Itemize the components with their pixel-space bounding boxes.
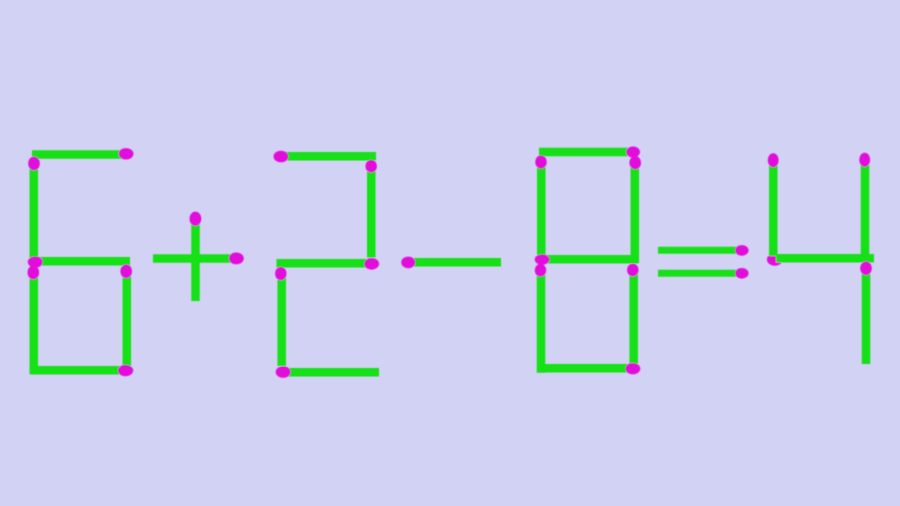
- digit 8 lower-left vertical matchstick: [537, 271, 546, 373]
- match head: digit 4 left stick, top end: [768, 153, 779, 167]
- match head: digit 6 top stick, right end: [119, 148, 134, 159]
- plus sign vertical matchstick: [191, 220, 200, 301]
- digit 6 bottom horizontal matchstick: [30, 366, 125, 375]
- digit 2 upper-right vertical matchstick: [367, 167, 376, 258]
- match head: digit 4 lower-right stick, top end: [860, 261, 872, 275]
- match head: plus horizontal stick, right end: [229, 253, 244, 265]
- digit 4 middle horizontal matchstick: [776, 254, 874, 263]
- digit 4 lower-right vertical matchstick: [862, 270, 871, 365]
- match head: digit 8 lower-right stick, top end: [627, 264, 638, 277]
- match head: digit 2 upper-right stick, top end: [366, 160, 377, 173]
- match head: digit 8 top stick, right end: [626, 147, 640, 158]
- digit 8 top horizontal matchstick: [539, 148, 632, 157]
- match head: digit 8 upper-left stick, top end: [535, 155, 546, 168]
- match head: digit 8 upper-right stick, top end: [629, 156, 641, 169]
- digit 6 middle horizontal matchstick: [36, 257, 130, 266]
- match head: digit 8 middle stick, left end: [535, 254, 550, 265]
- match head: plus vertical stick, top end: [190, 212, 202, 226]
- digit 6 lower-left vertical matchstick: [30, 273, 39, 374]
- match head: digit 2 middle stick, right end: [364, 258, 379, 270]
- match head: minus stick, left end: [401, 257, 415, 269]
- minus sign horizontal matchstick: [409, 258, 501, 267]
- digit 8 upper-right vertical matchstick: [631, 164, 640, 263]
- digit 2 lower-left vertical matchstick: [277, 275, 286, 367]
- match head: digit 6 upper-left stick, top end: [28, 157, 40, 171]
- match head: digit 6 lower-right stick, top end: [120, 264, 132, 278]
- digit 6 lower-right vertical matchstick: [123, 272, 132, 366]
- digit 6 upper-left vertical matchstick: [30, 164, 39, 258]
- digit 2 middle horizontal matchstick: [277, 259, 372, 268]
- match head: digit 4 upper-right stick, top end: [859, 153, 870, 167]
- digit 4 left vertical matchstick: [769, 162, 778, 257]
- digit 4 upper-right vertical matchstick: [861, 161, 870, 256]
- match head: digit 2 lower-left stick, top end: [275, 267, 286, 281]
- match head: equals upper stick, right end: [735, 245, 749, 256]
- digit 8 bottom horizontal matchstick: [537, 364, 632, 373]
- equals sign lower horizontal matchstick: [658, 270, 741, 277]
- digit 8 lower-right vertical matchstick: [629, 271, 638, 364]
- match head: digit 4 middle stick, left end (under sticks): [767, 253, 783, 265]
- digit 2 bottom horizontal matchstick: [284, 368, 379, 377]
- equals sign upper horizontal matchstick: [658, 247, 741, 254]
- digit 6 top horizontal matchstick: [32, 150, 126, 159]
- match head: digit 6 middle stick, left end: [28, 256, 43, 267]
- digit 2 top horizontal matchstick: [282, 152, 376, 161]
- match head: digit 6 lower-left stick, top end: [28, 266, 40, 280]
- digit 8 middle horizontal matchstick: [543, 255, 638, 264]
- match head: digit 2 bottom stick, left end: [276, 366, 291, 378]
- plus sign horizontal matchstick: [153, 254, 236, 263]
- digit 8 upper-left vertical matchstick: [537, 163, 546, 257]
- match head: digit 6 bottom stick, right end: [118, 365, 133, 376]
- match head: equals lower stick, right end: [735, 268, 749, 279]
- match head: digit 8 bottom stick, right end: [625, 363, 640, 374]
- match head: digit 2 top stick, left end: [274, 151, 289, 163]
- match head: digit 8 lower-left stick, top end: [535, 264, 546, 277]
